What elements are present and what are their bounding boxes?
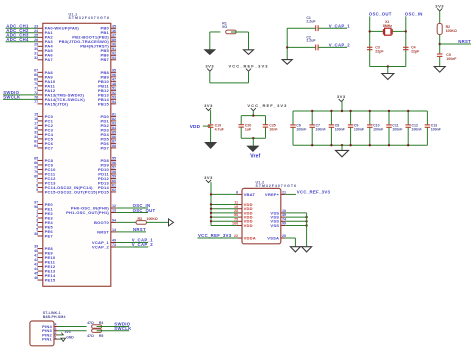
svg-text:PD15: PD15 [98, 189, 110, 194]
svg-text:V_CAP_1: V_CAP_1 [329, 23, 351, 28]
svg-text:89: 89 [112, 38, 116, 42]
svg-text:SWCLK: SWCLK [3, 95, 21, 100]
svg-text:93: 93 [112, 56, 116, 60]
svg-text:47Ω: 47Ω [87, 334, 94, 338]
svg-text:VREF+: VREF+ [265, 192, 280, 197]
svg-text:1: 1 [36, 210, 38, 214]
svg-text:PE15: PE15 [45, 277, 56, 282]
svg-text:SWCLK: SWCLK [114, 326, 132, 331]
svg-text:R5: R5 [99, 334, 104, 338]
svg-text:29: 29 [34, 42, 38, 46]
svg-text:87: 87 [112, 140, 116, 144]
svg-text:45: 45 [34, 272, 38, 276]
svg-text:VCC_REF_3V3: VCC_REF_3V3 [228, 64, 268, 69]
svg-text:PIN1: PIN1 [42, 337, 52, 342]
svg-text:64: 64 [34, 144, 38, 148]
svg-text:32: 32 [34, 56, 38, 60]
svg-text:2.2uF: 2.2uF [306, 39, 316, 43]
svg-text:100nF: 100nF [373, 127, 384, 131]
svg-text:44: 44 [34, 267, 38, 271]
svg-text:100nF: 100nF [392, 127, 403, 131]
svg-text:59: 59 [112, 175, 116, 179]
svg-text:46: 46 [34, 276, 38, 280]
svg-text:58: 58 [112, 170, 116, 174]
svg-text:VDD: VDD [190, 124, 201, 129]
svg-text:41: 41 [34, 254, 38, 258]
svg-text:85: 85 [112, 131, 116, 135]
svg-text:OSC_OUT: OSC_OUT [133, 208, 156, 213]
svg-text:OSC_OUT: OSC_OUT [369, 11, 392, 16]
svg-text:84: 84 [112, 126, 116, 130]
svg-text:2: 2 [36, 214, 38, 218]
svg-text:33: 33 [34, 131, 38, 135]
svg-text:NRST: NRST [458, 39, 471, 44]
svg-text:47Ω: 47Ω [87, 321, 94, 325]
svg-text:31: 31 [34, 51, 38, 55]
svg-text:1uF: 1uF [245, 127, 252, 131]
svg-text:5: 5 [36, 228, 38, 232]
svg-text:8MHz: 8MHz [383, 24, 392, 28]
svg-text:100nF: 100nF [354, 127, 365, 131]
svg-text:70: 70 [34, 82, 38, 86]
svg-text:4: 4 [36, 223, 38, 227]
svg-text:3: 3 [36, 219, 38, 223]
svg-text:VSSA: VSSA [267, 235, 279, 240]
svg-text:22pF: 22pF [411, 50, 420, 54]
svg-text:3V3: 3V3 [204, 175, 213, 180]
svg-text:VCAP_2: VCAP_2 [92, 244, 110, 249]
svg-text:VCC_REF_3V3: VCC_REF_3V3 [247, 103, 287, 108]
svg-text:34: 34 [34, 135, 38, 139]
svg-text:VBAT: VBAT [244, 192, 256, 197]
svg-text:86: 86 [112, 135, 116, 139]
svg-text:R3: R3 [138, 217, 143, 221]
svg-text:78: 78 [34, 166, 38, 170]
svg-text:88: 88 [112, 144, 116, 148]
svg-text:79: 79 [34, 170, 38, 174]
svg-text:68: 68 [34, 73, 38, 77]
svg-text:PD7: PD7 [100, 145, 109, 150]
svg-text:1: 1 [55, 335, 57, 339]
svg-text:53: 53 [112, 95, 116, 99]
svg-text:4.7uF: 4.7uF [215, 127, 225, 131]
svg-text:BOOT0: BOOT0 [94, 220, 110, 225]
svg-text:35: 35 [112, 24, 116, 28]
svg-text:100nF: 100nF [335, 127, 346, 131]
svg-text:22pF: 22pF [375, 50, 384, 54]
svg-text:3V3: 3V3 [205, 64, 214, 69]
svg-text:3V3: 3V3 [65, 330, 71, 334]
svg-text:100KΩ: 100KΩ [446, 29, 457, 33]
svg-text:Vref: Vref [250, 154, 260, 160]
svg-text:30: 30 [34, 47, 38, 51]
svg-text:14: 14 [112, 228, 116, 232]
svg-text:66: 66 [34, 161, 38, 165]
svg-text:B4B-PH-SM4: B4B-PH-SM4 [43, 315, 66, 319]
svg-text:100nF: 100nF [412, 127, 423, 131]
svg-text:PA7: PA7 [45, 57, 54, 62]
svg-text:18: 18 [34, 126, 38, 130]
svg-text:STM32F407VGT6: STM32F407VGT6 [69, 16, 110, 20]
svg-text:VDD: VDD [244, 223, 253, 228]
svg-text:83: 83 [112, 122, 116, 126]
svg-text:OSC_IN: OSC_IN [405, 11, 423, 16]
svg-text:92: 92 [112, 51, 116, 55]
svg-text:STM32F407VGT6: STM32F407VGT6 [256, 184, 297, 188]
svg-text:15: 15 [34, 113, 38, 117]
svg-text:R4: R4 [99, 321, 104, 325]
svg-text:PC7: PC7 [45, 145, 54, 150]
svg-text:3V3: 3V3 [435, 3, 444, 8]
svg-text:100nF: 100nF [431, 127, 442, 131]
svg-text:37: 37 [112, 33, 116, 37]
svg-text:PB15: PB15 [98, 101, 110, 106]
svg-text:40: 40 [34, 249, 38, 253]
svg-text:96: 96 [112, 73, 116, 77]
svg-text:17: 17 [34, 122, 38, 126]
svg-text:36: 36 [112, 29, 116, 33]
svg-text:V_CAP_2: V_CAP_2 [132, 242, 154, 247]
svg-text:16: 16 [34, 117, 38, 121]
svg-text:39: 39 [34, 245, 38, 249]
svg-text:80: 80 [34, 175, 38, 179]
svg-text:V_CAP_2: V_CAP_2 [329, 43, 351, 48]
svg-text:100KΩ: 100KΩ [147, 217, 158, 221]
svg-text:47: 47 [112, 77, 116, 81]
svg-text:38: 38 [34, 232, 38, 236]
svg-text:65: 65 [34, 157, 38, 161]
svg-text:61: 61 [112, 184, 116, 188]
svg-text:7: 7 [36, 179, 38, 183]
svg-text:82: 82 [112, 117, 116, 121]
svg-text:95: 95 [112, 68, 116, 72]
svg-text:43: 43 [34, 263, 38, 267]
svg-text:3V3: 3V3 [337, 94, 346, 99]
svg-text:3V3: 3V3 [204, 103, 213, 108]
svg-text:PE7: PE7 [45, 233, 54, 238]
svg-text:77: 77 [34, 100, 38, 104]
svg-text:54: 54 [112, 100, 116, 104]
svg-text:94: 94 [112, 219, 116, 223]
svg-text:91: 91 [112, 47, 116, 51]
svg-text:100nF: 100nF [446, 57, 457, 61]
svg-text:10nF: 10nF [269, 127, 278, 131]
svg-text:2.2uF: 2.2uF [306, 20, 316, 24]
svg-text:51: 51 [112, 86, 116, 90]
svg-text:42: 42 [34, 258, 38, 262]
svg-text:49: 49 [112, 239, 116, 243]
svg-text:8: 8 [36, 184, 38, 188]
svg-text:PC15-OSC32_OUT(PC15): PC15-OSC32_OUT(PC15) [45, 189, 98, 194]
svg-text:100nF: 100nF [316, 127, 327, 131]
svg-text:VDDA: VDDA [244, 235, 256, 240]
svg-text:69: 69 [34, 77, 38, 81]
svg-text:VCC_REF_3V3: VCC_REF_3V3 [297, 190, 331, 195]
svg-text:PH1-OSC_OUT(PH1): PH1-OSC_OUT(PH1) [66, 210, 109, 215]
svg-text:52: 52 [112, 91, 116, 95]
svg-text:90: 90 [112, 42, 116, 46]
svg-text:71: 71 [34, 86, 38, 90]
svg-text:9: 9 [36, 188, 38, 192]
svg-text:0Ω: 0Ω [222, 25, 227, 29]
svg-text:73: 73 [112, 243, 116, 247]
svg-text:81: 81 [112, 113, 116, 117]
svg-text:97: 97 [34, 201, 38, 205]
svg-text:67: 67 [34, 68, 38, 72]
svg-text:60: 60 [112, 179, 116, 183]
svg-text:NRST: NRST [133, 227, 146, 232]
svg-text:13: 13 [112, 209, 116, 213]
svg-text:55: 55 [112, 157, 116, 161]
svg-text:PB7: PB7 [100, 57, 109, 62]
svg-text:12: 12 [112, 204, 116, 208]
svg-text:48: 48 [112, 82, 116, 86]
svg-text:VSS: VSS [270, 223, 279, 228]
svg-text:VCC_REF_3V3: VCC_REF_3V3 [198, 233, 232, 238]
svg-text:PA15(JTDI): PA15(JTDI) [45, 101, 69, 106]
svg-text:100nF: 100nF [296, 127, 307, 131]
svg-text:63: 63 [34, 140, 38, 144]
svg-text:98: 98 [34, 205, 38, 209]
svg-text:NRST: NRST [97, 229, 109, 234]
svg-text:ADC_CH4: ADC_CH4 [6, 37, 29, 42]
svg-text:GND: GND [66, 336, 74, 340]
svg-text:62: 62 [112, 188, 116, 192]
svg-text:57: 57 [112, 166, 116, 170]
svg-text:56: 56 [112, 161, 116, 165]
